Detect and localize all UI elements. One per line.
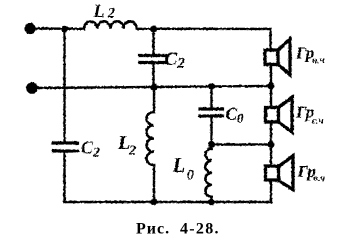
svg-text:Рис.: Рис. [136,221,170,238]
svg-text:2: 2 [107,6,116,22]
svg-text:4-28.: 4-28. [180,221,220,238]
svg-text:0: 0 [187,168,195,184]
svg-text:н.ч: н.ч [312,56,325,66]
svg-text:L: L [172,153,186,177]
svg-text:C: C [226,104,238,124]
svg-text:в.ч: в.ч [314,174,326,184]
svg-text:с.ч: с.ч [312,117,324,127]
svg-text:0: 0 [237,111,244,126]
svg-text:2: 2 [128,144,136,159]
svg-text:2: 2 [177,56,186,72]
svg-text:2: 2 [92,146,100,161]
svg-text:L: L [93,1,105,21]
svg-text:C: C [165,49,178,70]
